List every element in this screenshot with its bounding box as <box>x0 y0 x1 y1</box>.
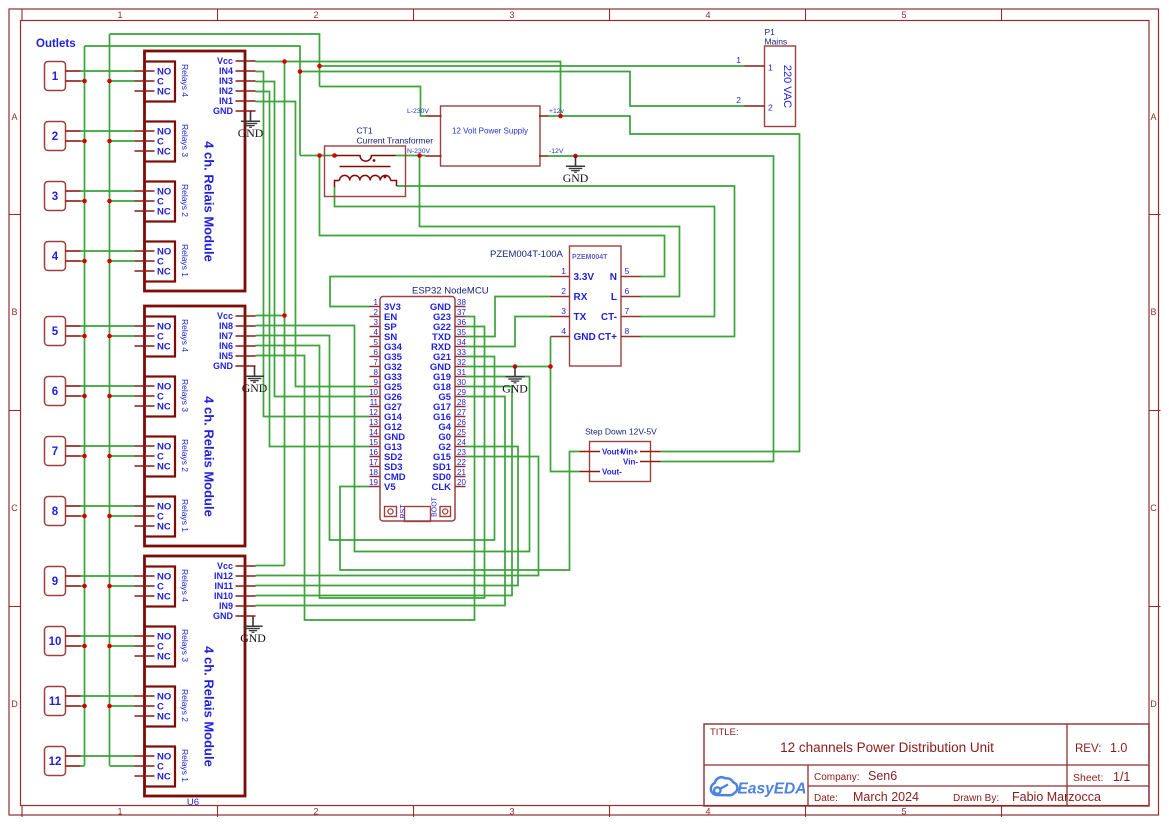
svg-text:4 ch. Relais Module: 4 ch. Relais Module <box>202 396 217 517</box>
wire module3 Vcc tap <box>256 565 285 567</box>
svg-text:+12v: +12v <box>549 108 565 115</box>
wire outlet 12 neutral to bus <box>81 765 85 767</box>
svg-text:L: L <box>611 292 617 303</box>
module 1 Relays 2 pin NC <box>135 210 155 212</box>
svg-text:Relays 2: Relays 2 <box>180 439 190 472</box>
wire outlet 1 live to relay NO <box>81 70 135 72</box>
svg-text:Vcc: Vcc <box>217 311 233 321</box>
svg-text:CT-: CT- <box>601 312 617 323</box>
svg-text:Outlets: Outlets <box>36 38 76 50</box>
svg-text:D: D <box>11 699 18 709</box>
svg-text:V5: V5 <box>384 482 396 493</box>
module 3 relay sub-box Relays 1 <box>145 747 176 787</box>
svg-text:NC: NC <box>157 772 171 783</box>
module 1 Relays 4 pin NC <box>135 90 155 92</box>
svg-text:NC: NC <box>157 402 171 413</box>
module 3 Relays 4 pin NO <box>135 575 155 577</box>
module 2 Relays 2 pin NC <box>135 465 155 467</box>
wire outlet 2 neutral to bus <box>81 140 85 142</box>
svg-text:36: 36 <box>457 318 466 327</box>
module 2 relay sub-box Relays 4 <box>145 317 176 357</box>
wire PZEM GND down <box>550 337 552 367</box>
PSU pin N-230V <box>426 155 442 157</box>
wire PZEM 3.3V to ESP32 3V3 <box>330 277 551 307</box>
title block outer <box>704 724 1149 806</box>
svg-text:23: 23 <box>457 448 466 457</box>
svg-text:12 channels Power Distribution: 12 channels Power Distribution Unit <box>780 740 994 755</box>
module 2 Relays 1 pin NC <box>135 525 155 527</box>
junction outlet 10 neutral <box>82 644 87 649</box>
svg-text:Sen6: Sen6 <box>868 769 897 783</box>
junction relay 3 C <box>107 199 112 204</box>
svg-text:Vin-: Vin- <box>623 458 638 467</box>
outlet 2 connector <box>45 122 66 151</box>
svg-text:IN10: IN10 <box>214 591 233 601</box>
module 2 Relays 4 pin NC <box>135 345 155 347</box>
wire IN8 to G19 <box>256 326 530 552</box>
svg-text:-12V: -12V <box>549 148 564 155</box>
wire branch to PZEM L <box>420 156 680 297</box>
svg-text:3: 3 <box>52 191 58 203</box>
module 2 Relays 3 pin C <box>135 395 155 397</box>
svg-text:GND: GND <box>574 332 596 343</box>
svg-text:12 Volt Power Supply: 12 Volt Power Supply <box>452 127 528 136</box>
CT1 core bar <box>340 166 391 168</box>
svg-text:33: 33 <box>457 348 466 357</box>
svg-text:CT+: CT+ <box>598 332 617 343</box>
CT1 primary winding <box>336 156 396 162</box>
wire neutral bus vertical <box>84 46 86 766</box>
svg-text:26: 26 <box>457 418 466 427</box>
svg-text:IN9: IN9 <box>219 601 233 611</box>
svg-text:5: 5 <box>901 807 906 817</box>
wire ESP32 GND run <box>466 366 551 368</box>
wire outlet 6 live to relay NO <box>81 385 135 387</box>
wire outlet 11 neutral to bus <box>81 705 85 707</box>
wire live bus to relay 6 C <box>110 395 135 397</box>
svg-text:Relays 1: Relays 1 <box>180 749 190 782</box>
module 2 Relays 3 pin NC <box>135 405 155 407</box>
wire IN4 to G14 <box>256 72 370 417</box>
svg-text:12: 12 <box>49 756 62 768</box>
module 3 Relays 4 pin NC <box>135 595 155 597</box>
module 3 Relays 1 pin NO <box>135 755 155 757</box>
svg-text:2: 2 <box>736 95 741 105</box>
ESP32 pin 5 G34 <box>370 346 381 348</box>
ESP32 pin 20 CLK <box>455 486 466 488</box>
svg-text:IN1: IN1 <box>219 96 233 106</box>
svg-text:IN7: IN7 <box>219 331 233 341</box>
outlet 8 connector <box>45 497 66 526</box>
module 3 Relays 1 pin C <box>135 765 155 767</box>
svg-text:3.3V: 3.3V <box>574 272 595 283</box>
ESP32 pin 4 SN <box>370 336 381 338</box>
module 2 Relays 1 pin NO <box>135 505 155 507</box>
ESP32 pin 17 SD3 <box>370 466 381 468</box>
svg-text:GND: GND <box>213 611 234 621</box>
outlet 3 connector <box>45 182 66 211</box>
svg-text:5: 5 <box>52 326 59 338</box>
svg-text:1: 1 <box>117 10 122 20</box>
junction relay 7 C <box>107 454 112 459</box>
svg-text:GND: GND <box>563 171 589 185</box>
module 1 pin IN2 <box>236 90 256 92</box>
ESP32 pin 34 RXD <box>455 346 466 348</box>
module 2 Relays 3 pin NO <box>135 385 155 387</box>
relay module 1 outline <box>145 51 246 291</box>
junction outlet 1 neutral <box>82 79 87 84</box>
svg-text:4: 4 <box>561 326 566 336</box>
module 3 pin Vcc <box>236 565 256 567</box>
svg-text:A: A <box>11 112 17 122</box>
module 2 Relays 2 pin C <box>135 455 155 457</box>
wire live bus to relay 5 C <box>110 335 135 337</box>
wire IN11 to G2 <box>256 447 519 586</box>
module 3 pin IN11 <box>236 585 256 587</box>
module 1 Relays 1 pin NC <box>135 270 155 272</box>
svg-text:EasyEDA: EasyEDA <box>738 780 807 797</box>
ESP32 pin 11 G27 <box>370 406 381 408</box>
ESP32 pin 38 GND <box>455 306 466 308</box>
svg-text:IN12: IN12 <box>214 571 233 581</box>
svg-text:Relays 1: Relays 1 <box>180 499 190 532</box>
svg-text:9: 9 <box>52 576 58 588</box>
junction relay 4 C <box>107 259 112 264</box>
module 2 pin IN6 <box>236 345 256 347</box>
wire live bus top run <box>110 34 320 87</box>
P1 pin 2 <box>745 105 765 107</box>
svg-text:Relays 3: Relays 3 <box>180 379 190 412</box>
wire outlet 7 neutral to bus <box>81 455 85 457</box>
wire IN2 to G13 <box>256 92 370 447</box>
junction outlet 5 neutral <box>82 334 87 339</box>
svg-text:NC: NC <box>157 342 171 353</box>
svg-text:4 ch. Relais Module: 4 ch. Relais Module <box>202 646 217 767</box>
ESP32 pin 8 G33 <box>370 376 381 378</box>
wire live bus to relay 8 C <box>110 515 135 517</box>
svg-text:NC: NC <box>157 652 171 663</box>
module 2 ground <box>245 366 264 382</box>
junction outlet 9 neutral <box>82 584 87 589</box>
svg-text:RX: RX <box>574 292 588 303</box>
svg-text:28: 28 <box>457 398 466 407</box>
junction relay 2 C <box>107 139 112 144</box>
svg-text:Company:: Company: <box>814 772 860 783</box>
wire IN6 to G22 <box>256 327 485 599</box>
svg-text:C: C <box>1150 503 1157 513</box>
svg-text:1: 1 <box>52 71 59 83</box>
ESP32 pin 1 3V3 <box>370 306 381 308</box>
module 3 relay sub-box Relays 3 <box>145 627 176 667</box>
svg-text:3: 3 <box>509 807 514 817</box>
svg-text:11: 11 <box>49 696 62 708</box>
wire CT+ to PZEM CT+ <box>397 186 735 337</box>
svg-text:17: 17 <box>369 458 378 467</box>
svg-text:5: 5 <box>625 266 630 276</box>
svg-text:10: 10 <box>369 388 378 397</box>
svg-text:IN2: IN2 <box>219 86 233 96</box>
wire Vcc bus vertical <box>284 62 286 566</box>
svg-text:Relays 2: Relays 2 <box>180 184 190 217</box>
svg-text:NC: NC <box>157 522 171 533</box>
svg-text:18: 18 <box>369 468 378 477</box>
wire outlet 9 live to relay NO <box>81 575 135 577</box>
module 3 Relays 3 pin NO <box>135 635 155 637</box>
PSU pin +12v <box>539 115 548 117</box>
svg-text:NC: NC <box>157 147 171 158</box>
svg-text:7: 7 <box>625 306 630 316</box>
svg-text:Drawn By:: Drawn By: <box>953 793 999 804</box>
junction relay 1 C <box>107 79 112 84</box>
module 1 Relays 3 pin C <box>135 140 155 142</box>
junction outlet 2 neutral <box>82 139 87 144</box>
ESP32 pin 28 G17 <box>455 406 466 408</box>
svg-text:A: A <box>1150 112 1156 122</box>
svg-text:Relays 1: Relays 1 <box>180 244 190 277</box>
svg-text:25: 25 <box>457 428 466 437</box>
wire outlet 2 live to relay NO <box>81 130 135 132</box>
svg-text:Relays 4: Relays 4 <box>180 64 190 97</box>
svg-text:GND: GND <box>242 381 268 395</box>
ESP32 pin 26 G4 <box>455 426 466 428</box>
wire live bus to relay 10 C <box>110 645 135 647</box>
wire live bus to relay 3 C <box>110 200 135 202</box>
ESP32 pin 18 CMD <box>370 476 381 478</box>
svg-text:3: 3 <box>509 10 514 20</box>
module ESP32 NodeMCU outline <box>380 297 455 522</box>
wire live bus to relay 12 C <box>110 765 135 767</box>
wire outlet 4 neutral to bus <box>81 260 85 262</box>
ESP32 RST button <box>385 507 397 517</box>
junction neutral P1 <box>298 69 303 74</box>
svg-text:IN8: IN8 <box>219 321 233 331</box>
wire IN10 to G18 <box>256 387 513 596</box>
relay module 3 outline <box>145 556 246 796</box>
PZEM pin 2 RX <box>551 296 570 298</box>
ESP32 pin 15 G13 <box>370 446 381 448</box>
ESP32 pin 12 G14 <box>370 416 381 418</box>
module 1 relay sub-box Relays 3 <box>145 122 176 162</box>
svg-text:TX: TX <box>574 312 587 323</box>
border row ticks left/right <box>9 214 21 216</box>
wire neutral to CT primary <box>300 155 335 157</box>
wire IN7 to G21 <box>256 336 495 541</box>
svg-text:7: 7 <box>52 446 58 458</box>
ESP32 pin 7 G32 <box>370 366 381 368</box>
wire outlet 3 neutral to bus <box>81 200 85 202</box>
svg-text:9: 9 <box>374 378 379 387</box>
svg-text:NC: NC <box>157 87 171 98</box>
svg-text:REV:: REV: <box>1075 743 1101 755</box>
svg-text:8: 8 <box>625 326 630 336</box>
ESP32 pin 24 G2 <box>455 446 466 448</box>
svg-text:2: 2 <box>768 103 773 113</box>
ESP32 pin 37 G23 <box>455 316 466 318</box>
svg-text:N-230V: N-230V <box>407 148 431 155</box>
svg-text:22: 22 <box>457 458 466 467</box>
module 1 Relays 1 pin C <box>135 260 155 262</box>
svg-text:Vout-: Vout- <box>602 468 622 477</box>
module 1 ground <box>241 111 260 127</box>
junction relay 11 C <box>107 704 112 709</box>
wire outlet 8 live to relay NO <box>81 505 135 507</box>
junction relay 9 C <box>107 584 112 589</box>
svg-text:37: 37 <box>457 308 466 317</box>
wire live bus to relay 7 C <box>110 455 135 457</box>
svg-text:6: 6 <box>374 348 379 357</box>
junction outlet 11 neutral <box>82 704 87 709</box>
module 3 Relays 2 pin NC <box>135 715 155 717</box>
svg-text:6: 6 <box>625 286 630 296</box>
svg-text:March 2024: March 2024 <box>853 790 919 804</box>
svg-text:4: 4 <box>705 807 710 817</box>
module 2 pin GND <box>236 365 256 367</box>
module 3 Relays 2 pin C <box>135 705 155 707</box>
svg-text:IN5: IN5 <box>219 351 233 361</box>
module 1 pin IN3 <box>236 80 256 82</box>
PSU ground <box>566 156 585 172</box>
wire outlet 5 neutral to bus <box>81 335 85 337</box>
PZEM pin 5 N <box>621 276 641 278</box>
module 2 Relays 4 pin C <box>135 335 155 337</box>
ESP32 pin 27 G16 <box>455 416 466 418</box>
svg-text:Relays 4: Relays 4 <box>180 569 190 602</box>
junction outlet 8 neutral <box>82 514 87 519</box>
svg-text:27: 27 <box>457 408 466 417</box>
wire outlet 12 live to relay NO <box>81 755 135 757</box>
wire live bus to relay 11 C <box>110 705 135 707</box>
wire live bus to relay 4 C <box>110 260 135 262</box>
svg-text:IN11: IN11 <box>214 581 233 591</box>
wire outlet 9 neutral to bus <box>81 585 85 587</box>
svg-text:3: 3 <box>561 306 566 316</box>
svg-text:P1: P1 <box>765 27 776 37</box>
svg-text:24: 24 <box>457 438 466 447</box>
PSU pin -12V <box>539 155 548 157</box>
svg-text:Current Transformer: Current Transformer <box>357 136 434 146</box>
svg-text:1.0: 1.0 <box>1110 741 1127 755</box>
junction outlet 3 neutral <box>82 199 87 204</box>
current transformer CT1 outline <box>325 146 406 197</box>
svg-text:1/1: 1/1 <box>1113 770 1130 784</box>
wire live bus to relay 1 C <box>110 80 135 82</box>
svg-text:2: 2 <box>52 131 58 143</box>
module 3 Relays 2 pin NO <box>135 695 155 697</box>
svg-text:16: 16 <box>369 448 378 457</box>
relay module 2 outline <box>145 306 246 546</box>
wire neutral branch to PZEM N <box>320 156 665 277</box>
svg-text:NC: NC <box>157 267 171 278</box>
svg-text:ESP32 NodeMCU: ESP32 NodeMCU <box>412 286 489 297</box>
P1 pin 1 <box>745 65 765 67</box>
svg-text:11: 11 <box>370 398 379 407</box>
module 1 pin Vcc <box>236 60 256 62</box>
connector P1 Mains outline <box>765 46 796 127</box>
svg-text:Step Down 12V-5V: Step Down 12V-5V <box>585 427 657 437</box>
outlet 5 connector <box>45 317 66 346</box>
ESP32 pin 32 GND <box>455 366 466 368</box>
PZEM pin 1 3.3V <box>551 276 570 278</box>
svg-text:8: 8 <box>52 506 59 518</box>
svg-text:PZEM004T-100A: PZEM004T-100A <box>490 249 564 260</box>
svg-text:N: N <box>610 272 617 283</box>
module 3 pin IN9 <box>236 605 256 607</box>
module 1 Relays 4 pin C <box>135 80 155 82</box>
outlet 10 connector <box>45 627 66 656</box>
junction outlet 4 neutral <box>82 259 87 264</box>
svg-text:1: 1 <box>374 298 379 307</box>
svg-text:BOOT: BOOT <box>432 496 439 517</box>
wire +12v to step-down Vin+ <box>548 116 800 452</box>
ESP32 pin 16 SD2 <box>370 456 381 458</box>
svg-text:20: 20 <box>457 478 466 487</box>
EasyEDA logo <box>711 777 807 797</box>
svg-text:B: B <box>1150 307 1156 317</box>
junction outlet 7 neutral <box>82 454 87 459</box>
module 2 Relays 4 pin NO <box>135 325 155 327</box>
border column ticks top/bottom <box>21 9 23 21</box>
svg-text:2: 2 <box>561 286 566 296</box>
svg-text:10: 10 <box>49 636 62 648</box>
svg-text:NC: NC <box>157 207 171 218</box>
svg-text:IN6: IN6 <box>219 341 233 351</box>
step-down pin Vin- <box>640 461 661 463</box>
wire module2 Vcc tap <box>256 315 285 317</box>
outlet 11 connector <box>45 687 66 716</box>
wire IN9 to G5 <box>256 397 506 606</box>
module 1 relay sub-box Relays 4 <box>145 62 176 102</box>
wire outlet 7 live to relay NO <box>81 445 135 447</box>
svg-text:5: 5 <box>374 338 379 347</box>
outlet 1 connector <box>45 62 66 91</box>
outlet 4 connector <box>45 242 66 271</box>
module 2 relay sub-box Relays 2 <box>145 437 176 477</box>
wire outlet 3 live to relay NO <box>81 190 135 192</box>
module 1 Relays 3 pin NO <box>135 130 155 132</box>
wire live bus to relay 9 C <box>110 585 135 587</box>
ESP32 pin 25 G0 <box>455 436 466 438</box>
svg-text:GND: GND <box>502 381 528 395</box>
svg-text:5: 5 <box>901 10 906 20</box>
module 3 Relays 1 pin NC <box>135 775 155 777</box>
wire outlet 6 neutral to bus <box>81 395 85 397</box>
wire neutral bus top run <box>85 46 301 156</box>
svg-text:C: C <box>11 503 18 513</box>
ESP32 pin 9 G25 <box>370 386 381 388</box>
junction PZEM GND <box>548 364 553 369</box>
CT1 secondary coil <box>340 175 391 180</box>
ESP32 pin 22 SD1 <box>455 466 466 468</box>
svg-text:21: 21 <box>457 468 466 477</box>
svg-text:Vin+: Vin+ <box>621 448 638 457</box>
wire GND to step-down Vout- <box>551 367 580 472</box>
module 1 pin IN1 <box>236 100 256 102</box>
module 3 Relays 4 pin C <box>135 585 155 587</box>
outlet 12 connector <box>45 747 66 776</box>
svg-text:Mains: Mains <box>765 37 788 47</box>
svg-text:NC: NC <box>157 592 171 603</box>
module 1 relay sub-box Relays 1 <box>145 242 176 282</box>
module 1 Relays 2 pin C <box>135 200 155 202</box>
ESP32 ground <box>505 367 524 383</box>
svg-text:29: 29 <box>457 388 466 397</box>
svg-text:4: 4 <box>374 328 379 337</box>
ESP32 BOOT button <box>440 507 451 517</box>
wire ESP32 V5 to step-down Vout+ <box>340 452 580 571</box>
junction outlet 6 neutral <box>82 394 87 399</box>
module 2 pin Vcc <box>236 315 256 317</box>
ESP32 pin 13 G12 <box>370 426 381 428</box>
